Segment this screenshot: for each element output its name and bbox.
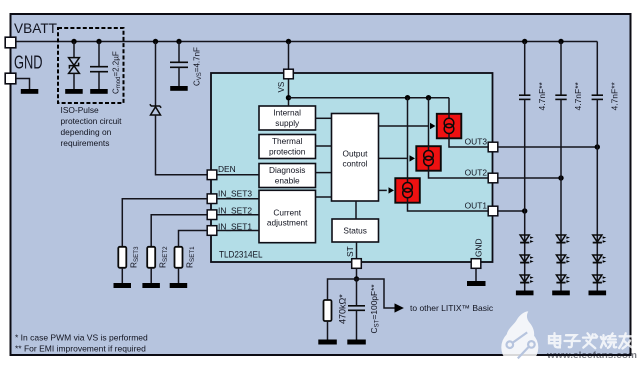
wire VBATT to Cmod	[98, 42, 100, 67]
wire OUT3 to LED string 3	[498, 146, 598, 148]
LED D2b	[556, 255, 570, 263]
wire to current source 3	[448, 98, 450, 114]
wire VBATT to zener	[155, 42, 157, 106]
wire OUT1 node to LEDs	[524, 211, 526, 291]
wire VS node to current sources	[289, 97, 450, 99]
TVS diode (bidirectional suppressor)	[69, 58, 80, 74]
wire source to OUT3 pin	[449, 138, 488, 147]
svg-text:OUT1: OUT1	[465, 201, 488, 211]
control arrow to source OUT3	[379, 125, 429, 127]
pin IN_SET3	[207, 194, 217, 204]
junction dot ST node	[354, 276, 359, 281]
capacitor Cout3 4.7nF	[592, 95, 603, 99]
ground (IC GND)	[467, 281, 486, 286]
wire IN_SET2 to RSET2	[151, 215, 207, 247]
terminal GND	[5, 73, 16, 84]
capacitor Cmod	[90, 67, 108, 72]
arrowhead to other LITIX	[395, 303, 404, 312]
pin VS	[284, 69, 294, 79]
junction dot OUT3 node	[595, 144, 600, 149]
wire Thermal protection to Output control	[316, 145, 332, 147]
ground (R470k)	[318, 340, 337, 345]
wire Cmod to ground	[98, 72, 100, 89]
wire VBATT to Cout3	[596, 42, 598, 96]
block Current adjustment	[259, 190, 316, 242]
wire OUT2 to LED string 2	[498, 177, 561, 179]
svg-text:470kΩ*: 470kΩ*	[338, 294, 348, 324]
resistor RSET1	[175, 247, 183, 268]
ground (LED string 2)	[552, 291, 570, 296]
wire zener to DEN pin	[156, 115, 208, 175]
ground (RSET3)	[114, 283, 132, 288]
wire ST node to R470k	[328, 279, 357, 300]
wire to current source 2	[428, 98, 430, 147]
block Status	[332, 219, 379, 242]
wire VBATT to TVS	[73, 42, 75, 58]
wire VBATT to CVS	[178, 42, 180, 62]
wire CVS to ground	[178, 68, 180, 87]
wire Cout2 to OUT2 node	[560, 99, 562, 178]
LED D3a	[593, 235, 607, 243]
wire VBATT rail	[16, 41, 598, 43]
wire IN_SET1 to RSET1	[179, 231, 208, 247]
wire IN_SET3 to RSET3	[122, 199, 207, 247]
wire source to OUT2 pin	[429, 171, 489, 178]
watermark text dianzifashaoyou	[549, 333, 633, 348]
ground (LED string 3)	[589, 291, 607, 296]
ISO-pulse protection dashed box	[58, 28, 124, 103]
pin DEN	[207, 170, 217, 180]
LED D1c	[520, 275, 534, 283]
ground (LED string 1)	[516, 291, 534, 296]
current source OUT3 (red)	[437, 114, 462, 139]
svg-text:Internalsupply: Internalsupply	[273, 108, 301, 128]
wire IN_SET3 pin to Current adjustment	[217, 198, 259, 200]
svg-text:Outputcontrol: Outputcontrol	[343, 148, 369, 168]
wire OUT3 node to LEDs	[596, 147, 598, 291]
wire ST node to other LITIX arrow	[357, 279, 395, 308]
ground (CST)	[347, 340, 366, 345]
block Thermal protection	[259, 135, 316, 159]
wire Current adjustment to Output control	[316, 196, 332, 198]
capacitor Cout2 4.7nF	[555, 95, 566, 99]
LED D2c	[556, 275, 570, 283]
svg-text:DEN: DEN	[218, 164, 236, 174]
capacitor CST	[348, 306, 365, 311]
block Diagnosis enable	[259, 164, 316, 188]
control arrow to source OUT1	[379, 189, 387, 191]
capacitor CVS	[170, 62, 188, 67]
resistor 470k	[324, 300, 332, 321]
wire GND terminal to ground	[16, 79, 30, 90]
LED D1b	[520, 255, 534, 263]
wire RSET2 to ground	[150, 268, 152, 283]
svg-text:4.7nF**: 4.7nF**	[537, 81, 547, 110]
wire Status to ST pin	[356, 242, 358, 259]
svg-text:www.elecfans.com: www.elecfans.com	[546, 350, 637, 361]
resistor RSET3	[118, 247, 126, 268]
wire VBATT to Cout1	[524, 42, 526, 96]
svg-text:OUT3: OUT3	[465, 137, 488, 147]
wire R470k to ground	[327, 321, 329, 340]
ground (Cmod)	[90, 89, 108, 94]
wire Diagnosis enable to Output control	[316, 172, 332, 174]
pin OUT1	[488, 206, 498, 216]
resistor RSET2	[147, 247, 155, 268]
wire Cout1 to OUT1 node	[524, 99, 526, 211]
ground (RSET1)	[170, 283, 188, 288]
wire GND pin to ground	[475, 268, 477, 281]
current source OUT2 (red)	[416, 146, 441, 171]
ground (GND terminal)	[21, 89, 39, 94]
block Output control	[332, 114, 379, 202]
svg-text:Status: Status	[343, 226, 367, 236]
wire IN_SET1 pin to Current adjustment	[217, 230, 259, 232]
pin IN_SET1	[207, 226, 217, 236]
svg-text:Thermalprotection: Thermalprotection	[269, 136, 306, 156]
svg-text:GND: GND	[474, 238, 484, 257]
LED D2a	[556, 235, 570, 243]
pin OUT3	[488, 142, 498, 152]
svg-text:4.7nF**: 4.7nF**	[609, 81, 619, 110]
svg-text:ST: ST	[345, 246, 355, 257]
svg-text:VBATT: VBATT	[14, 20, 57, 36]
pin IN_SET2	[207, 210, 217, 220]
control arrow to source OUT2	[379, 157, 408, 159]
wire OUT1 to LED string 1	[498, 210, 525, 212]
svg-text:TLD2314EL: TLD2314EL	[219, 250, 263, 261]
LED D1a	[520, 235, 534, 243]
wire OUT2 node to LEDs	[560, 178, 562, 291]
zener diode (DEN protection)	[150, 104, 161, 115]
wire ST pin to star node	[356, 268, 358, 279]
svg-text:to other LITIX™ Basic: to other LITIX™ Basic	[410, 303, 494, 313]
ground (CVS)	[170, 86, 188, 91]
junction dot VS node	[286, 95, 291, 100]
ground (TVS)	[65, 89, 83, 94]
IC TLD2314EL body	[211, 73, 493, 262]
svg-text:IN_SET2: IN_SET2	[218, 205, 252, 215]
wire to current source 1	[407, 98, 409, 179]
pin ST	[352, 259, 362, 269]
pin GND	[471, 259, 481, 269]
current source OUT1 (red)	[395, 178, 420, 203]
block Internal supply	[259, 106, 316, 130]
wire IN_SET2 pin to Current adjustment	[217, 214, 259, 216]
wire Cout3 to OUT3 node	[596, 99, 598, 147]
svg-text:4.7nF**: 4.7nF**	[573, 81, 583, 110]
junction dot OUT1 node	[522, 208, 527, 213]
wire CST to ground	[356, 311, 358, 340]
capacitor Cout1 4.7nF	[519, 95, 530, 99]
svg-text:OUT2: OUT2	[465, 168, 488, 178]
ground (RSET2)	[142, 283, 160, 288]
wire VBATT to Cout2	[560, 42, 562, 96]
svg-text:VS: VS	[277, 82, 286, 93]
svg-text:* In case PWM via VS is perfor: * In case PWM via VS is performed** For …	[15, 333, 148, 354]
junction dot OUT2 node	[558, 175, 563, 180]
junction dots on VS feed	[405, 95, 410, 100]
wire VS pin into IC	[288, 42, 290, 107]
wire ST node to CST	[356, 279, 358, 305]
pin OUT2	[488, 173, 498, 183]
LED D3b	[593, 255, 607, 263]
wire RSET3 to ground	[121, 268, 123, 283]
wire RSET1 to ground	[178, 268, 180, 283]
wire TVS to ground	[73, 73, 75, 89]
wire DEN pin to Diagnosis enable	[217, 174, 259, 176]
wire Output control to Status	[355, 201, 357, 219]
wire Internal supply to Output control	[316, 117, 332, 119]
terminal VBATT	[5, 37, 16, 48]
svg-text:GND: GND	[14, 52, 43, 73]
svg-text:IN_SET3: IN_SET3	[218, 188, 252, 198]
LED D3c	[593, 275, 607, 283]
junction dots on VBATT rail	[71, 39, 563, 44]
wire source to OUT1 pin	[408, 203, 489, 211]
